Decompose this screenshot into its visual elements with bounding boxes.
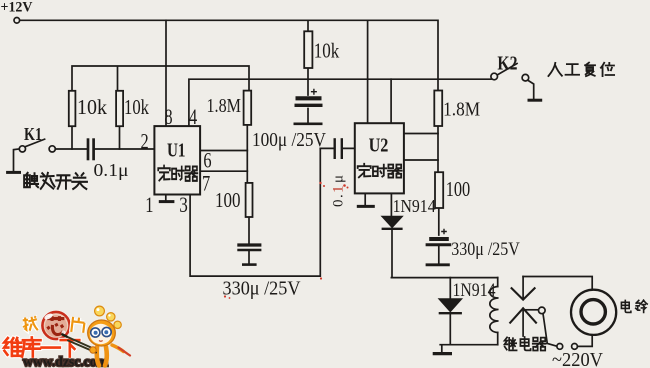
svg-text:7: 7 bbox=[202, 170, 210, 195]
svg-text:3: 3 bbox=[179, 192, 188, 217]
svg-text:1: 1 bbox=[145, 192, 153, 217]
svg-text:10k: 10k bbox=[124, 95, 149, 119]
svg-text:K2: K2 bbox=[497, 54, 517, 75]
svg-text:U1: U1 bbox=[167, 141, 186, 162]
svg-text:100μ /25V: 100μ /25V bbox=[252, 129, 326, 151]
svg-text:0.1μ: 0.1μ bbox=[94, 160, 129, 180]
svg-text:~220V: ~220V bbox=[552, 350, 603, 368]
svg-text:1N914: 1N914 bbox=[393, 196, 436, 216]
svg-text:1.8M: 1.8M bbox=[207, 95, 242, 117]
svg-text:330μ /25V: 330μ /25V bbox=[451, 239, 520, 260]
svg-text:2: 2 bbox=[141, 129, 149, 154]
svg-text:330μ /25V: 330μ /25V bbox=[223, 278, 301, 300]
svg-text:U2: U2 bbox=[369, 136, 389, 157]
svg-text:6: 6 bbox=[203, 148, 211, 173]
svg-text:10k: 10k bbox=[77, 95, 107, 119]
svg-text:K1: K1 bbox=[24, 124, 42, 144]
svg-text:8: 8 bbox=[164, 104, 172, 129]
svg-text:4: 4 bbox=[189, 104, 197, 129]
svg-text:0.1μ: 0.1μ bbox=[331, 175, 347, 207]
svg-text:100: 100 bbox=[215, 188, 241, 212]
svg-text:+12V: +12V bbox=[1, 0, 33, 15]
svg-text:10k: 10k bbox=[314, 38, 340, 62]
svg-text:100: 100 bbox=[446, 177, 471, 201]
svg-text:1.8M: 1.8M bbox=[443, 98, 480, 120]
svg-text:1N914: 1N914 bbox=[453, 281, 496, 301]
